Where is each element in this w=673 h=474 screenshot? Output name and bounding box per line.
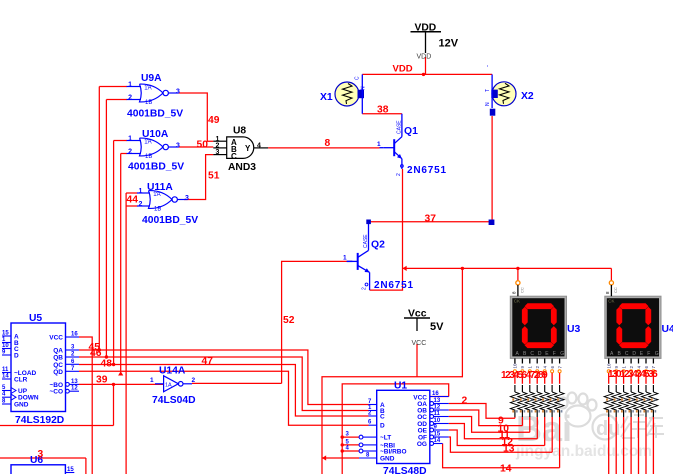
- svg-text:16: 16: [71, 332, 78, 338]
- svg-text:U4: U4: [662, 324, 673, 335]
- svg-text:12: 12: [434, 405, 441, 411]
- svg-text:D: D: [632, 351, 636, 357]
- svg-text:39: 39: [96, 375, 108, 386]
- svg-text:1B: 1B: [145, 100, 152, 106]
- svg-text:49: 49: [208, 115, 220, 126]
- svg-text:C: C: [231, 152, 237, 161]
- svg-text:U10A: U10A: [142, 129, 169, 140]
- svg-text:4001BD_5V: 4001BD_5V: [128, 162, 184, 173]
- svg-text:GND: GND: [14, 402, 29, 409]
- svg-text:14: 14: [434, 438, 441, 444]
- svg-text:VCC: VCC: [412, 340, 427, 347]
- svg-text:2N6751: 2N6751: [407, 165, 447, 176]
- svg-text:3: 3: [176, 143, 180, 150]
- svg-text:51: 51: [208, 171, 220, 182]
- svg-text:10: 10: [2, 343, 9, 349]
- svg-text:3: 3: [216, 149, 220, 156]
- svg-text:D: D: [380, 423, 385, 430]
- svg-text:1A: 1A: [144, 86, 151, 92]
- svg-text:GND: GND: [380, 456, 395, 463]
- svg-text:VDD: VDD: [393, 64, 413, 75]
- svg-text:C: C: [380, 414, 385, 421]
- svg-text:U9A: U9A: [141, 73, 162, 84]
- svg-text:2: 2: [362, 287, 368, 290]
- svg-text:1: 1: [139, 188, 143, 195]
- svg-text:1: 1: [377, 141, 381, 148]
- svg-text:D: D: [14, 353, 19, 360]
- svg-text:3: 3: [185, 195, 189, 202]
- svg-text:2: 2: [128, 95, 132, 102]
- svg-text:1A: 1A: [144, 140, 151, 146]
- svg-text:37: 37: [425, 214, 437, 225]
- svg-text:38: 38: [377, 105, 389, 116]
- svg-text:OG: OG: [417, 441, 427, 448]
- svg-text:OC: OC: [417, 414, 427, 421]
- svg-text:N: N: [361, 86, 367, 90]
- svg-text:10: 10: [434, 418, 441, 424]
- svg-text:12: 12: [71, 386, 78, 392]
- svg-text:~LT: ~LT: [380, 435, 391, 442]
- svg-text:U1: U1: [394, 381, 407, 392]
- svg-text:1: 1: [128, 136, 132, 143]
- svg-text:D: D: [538, 351, 542, 357]
- svg-text:74LS04D: 74LS04D: [152, 395, 196, 406]
- svg-text:QB: QB: [53, 355, 63, 362]
- svg-text:13: 13: [71, 379, 78, 385]
- svg-text:CC: CC: [519, 287, 524, 293]
- svg-text:G: G: [655, 351, 659, 357]
- svg-text:11: 11: [2, 367, 9, 373]
- svg-text:2: 2: [139, 201, 143, 208]
- svg-text:74LS192D: 74LS192D: [15, 415, 64, 426]
- svg-text:8: 8: [325, 138, 331, 149]
- svg-text:C: C: [355, 76, 361, 80]
- svg-text:QD: QD: [53, 369, 63, 376]
- svg-text:15: 15: [434, 432, 441, 438]
- svg-text:4: 4: [257, 143, 261, 150]
- svg-text:1A: 1A: [165, 383, 172, 389]
- svg-text:VDD: VDD: [417, 54, 432, 61]
- svg-text:15: 15: [2, 331, 9, 337]
- svg-text:50: 50: [197, 140, 209, 151]
- svg-text:~BI/RBO: ~BI/RBO: [380, 449, 407, 456]
- svg-text:13: 13: [434, 398, 441, 404]
- svg-text:QA: QA: [53, 348, 63, 355]
- svg-text:52: 52: [283, 315, 295, 326]
- svg-text:10: 10: [607, 363, 612, 369]
- svg-text:CASE: CASE: [397, 120, 403, 134]
- svg-text:130123434536: 130123434536: [608, 369, 658, 380]
- svg-text:CASE: CASE: [363, 234, 369, 248]
- svg-text:~CO: ~CO: [49, 389, 63, 396]
- svg-text:C: C: [530, 351, 534, 357]
- svg-text:4001BD_5V: 4001BD_5V: [127, 109, 183, 120]
- svg-text:47: 47: [202, 356, 214, 367]
- svg-text:CLR: CLR: [14, 377, 28, 384]
- svg-text:16: 16: [432, 391, 439, 397]
- svg-text:U8: U8: [233, 126, 246, 137]
- svg-text:1: 1: [128, 82, 132, 89]
- svg-text:CK: CK: [514, 299, 520, 304]
- svg-text:Q1: Q1: [404, 126, 418, 137]
- svg-text:X2: X2: [521, 91, 534, 102]
- svg-text:F: F: [553, 351, 556, 357]
- svg-text:10: 10: [513, 363, 518, 369]
- svg-text:U3: U3: [567, 324, 581, 335]
- svg-text:U5: U5: [29, 313, 42, 324]
- svg-text:VCC: VCC: [49, 335, 63, 342]
- svg-text:OE: OE: [418, 428, 428, 435]
- svg-text:U11A: U11A: [147, 182, 173, 193]
- svg-text:14: 14: [2, 374, 9, 380]
- svg-text:2: 2: [192, 377, 196, 384]
- svg-text:-: -: [485, 65, 491, 67]
- svg-text:12345647289: 12345647289: [501, 370, 548, 381]
- svg-text:74LS48D: 74LS48D: [383, 466, 427, 474]
- svg-text:T: T: [485, 89, 491, 92]
- svg-text:2: 2: [128, 149, 132, 156]
- svg-text:AND3: AND3: [228, 162, 256, 173]
- svg-text:13: 13: [503, 444, 515, 455]
- svg-text:48: 48: [101, 359, 113, 370]
- svg-text:12V: 12V: [439, 38, 459, 50]
- svg-text:1B: 1B: [145, 154, 152, 160]
- svg-text:U14A: U14A: [159, 366, 186, 377]
- svg-text:2: 2: [462, 396, 468, 407]
- svg-text:Y: Y: [245, 144, 251, 153]
- svg-text:Q2: Q2: [371, 240, 385, 251]
- svg-text:15: 15: [67, 467, 74, 473]
- svg-text:2: 2: [396, 173, 402, 176]
- svg-text:4001BD_5V: 4001BD_5V: [142, 215, 198, 226]
- svg-text:CC: CC: [613, 287, 618, 293]
- svg-text:14: 14: [500, 464, 512, 474]
- svg-text:44: 44: [127, 195, 139, 206]
- svg-text:CK: CK: [608, 299, 614, 304]
- svg-text:5V: 5V: [430, 321, 444, 333]
- svg-text:2N6751: 2N6751: [374, 280, 414, 291]
- svg-text:G: G: [560, 351, 564, 357]
- svg-text:11: 11: [434, 411, 441, 417]
- svg-text:C: C: [625, 351, 629, 357]
- svg-text:3: 3: [176, 89, 180, 96]
- svg-text:1: 1: [343, 255, 347, 262]
- svg-text:1: 1: [150, 377, 154, 384]
- svg-text:46: 46: [90, 348, 102, 359]
- svg-text:N: N: [485, 102, 491, 106]
- svg-text:1B: 1B: [154, 207, 161, 213]
- svg-text:X1: X1: [320, 92, 333, 103]
- svg-text:3: 3: [38, 449, 44, 460]
- svg-text:QC: QC: [53, 362, 63, 369]
- svg-text:F: F: [647, 351, 650, 357]
